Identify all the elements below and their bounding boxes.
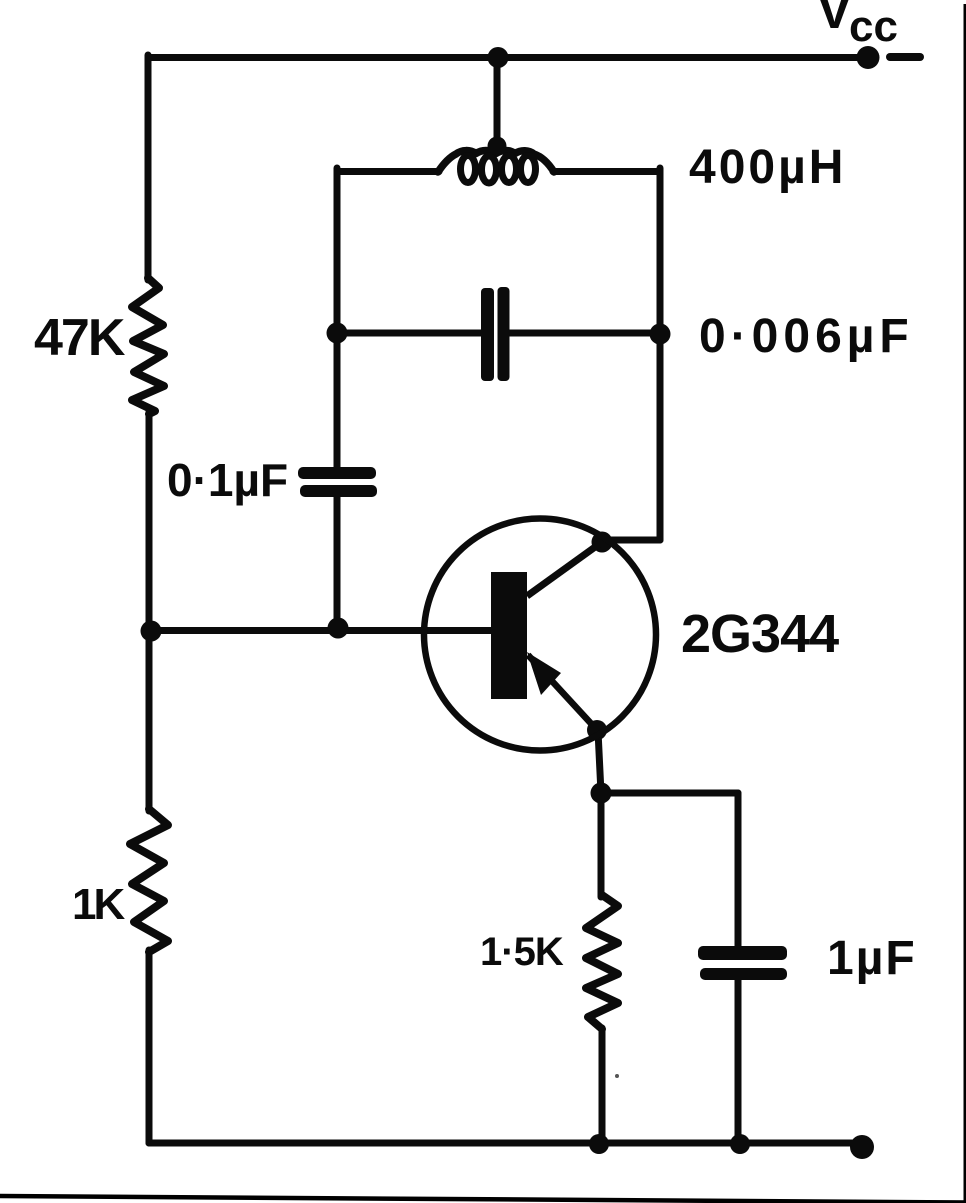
svg-text:cc: cc [849,2,898,51]
wire collector horizontal [602,537,660,544]
ink speck [615,1074,619,1078]
wire ground rail bottom [149,1140,862,1147]
wire tank right vertical [657,168,664,540]
resistor 1K zigzag [130,809,168,952]
junction dot emitter [587,720,607,740]
svg-text:1·5K: 1·5K [480,930,564,974]
wire emitter vertical [598,731,601,897]
junction dot tank left [327,323,348,344]
capacitor C3 1uF top plate [698,946,787,960]
wire 1uF upper lead [735,793,742,947]
capacitor C2 0.1uF bottom plate [300,485,377,497]
svg-text:2G344: 2G344 [681,604,839,664]
wire base [151,627,491,634]
wire left rail bottom (1K to ground rail) [146,950,153,1143]
inductor L1 loop 2 [482,156,497,183]
capacitor C1 0.006uF left plate [481,288,494,381]
wire left rail upper (Vcc to 47K) [145,55,152,280]
wire 1uF lower lead [735,979,742,1143]
scan border right edge [964,4,966,1203]
wire 0.1uF lower lead to base node [334,496,341,630]
wire tank top right [553,168,660,175]
junction dot base branch [328,618,349,639]
inductor L1 400uH coil [438,151,554,173]
capacitor C2 0.1uF top plate [298,467,376,479]
wire capacitor C1 right lead [509,330,660,337]
junction dot left rail base node [141,621,162,642]
ground terminal dot [850,1135,874,1159]
svg-text:1K: 1K [72,880,125,929]
junction dot collector [592,532,613,553]
junction dot top rail / inductor tap [488,47,509,68]
wire Vcc top rail [148,54,868,61]
svg-text:1µF: 1µF [827,932,917,985]
junction dot ground 1.5K [589,1134,609,1154]
resistor 1.5K zigzag [586,895,618,1029]
svg-text:0·006µF: 0·006µF [699,310,914,363]
junction dot tank right [650,324,671,345]
capacitor C1 0.006uF right plate [498,287,510,381]
wire tank left vertical [334,168,341,467]
svg-text:47K: 47K [34,309,126,367]
scan border bottom edge [0,1196,966,1203]
svg-text:400µH: 400µH [689,141,846,194]
wire left rail middle (47K to base node) [146,412,153,632]
transistor Q1 collector line [527,542,602,596]
wire tank top left [337,168,439,175]
svg-text:0·1µF: 0·1µF [167,454,288,506]
wire emitter branch to 1uF [601,790,738,797]
svg-text:V: V [817,0,852,40]
wire 1.5K lower lead [599,1028,606,1143]
Vcc terminal dot [857,46,880,69]
inductor L1 loop 1 [461,156,476,183]
wire inductor tap from Vcc rail [494,57,501,146]
capacitor C3 1uF bottom plate [700,968,787,980]
wire left rail lower (base node to 1K) [146,630,153,811]
transistor Q1 base bar [491,572,527,699]
transistor Q1 emitter arrowhead [527,652,561,695]
resistor 47K zigzag [132,278,164,414]
junction dot ground 1uF [730,1134,750,1154]
transistor Q1 emitter line [528,655,597,730]
wire capacitor C1 left lead [337,330,481,337]
Vcc dash [890,53,920,61]
transistor Q1 body circle [424,519,656,751]
junction dot inductor centre [488,137,507,156]
inductor L1 loop 4 [521,156,536,183]
junction dot emitter branch [591,783,612,804]
inductor L1 loop 3 [502,156,517,183]
